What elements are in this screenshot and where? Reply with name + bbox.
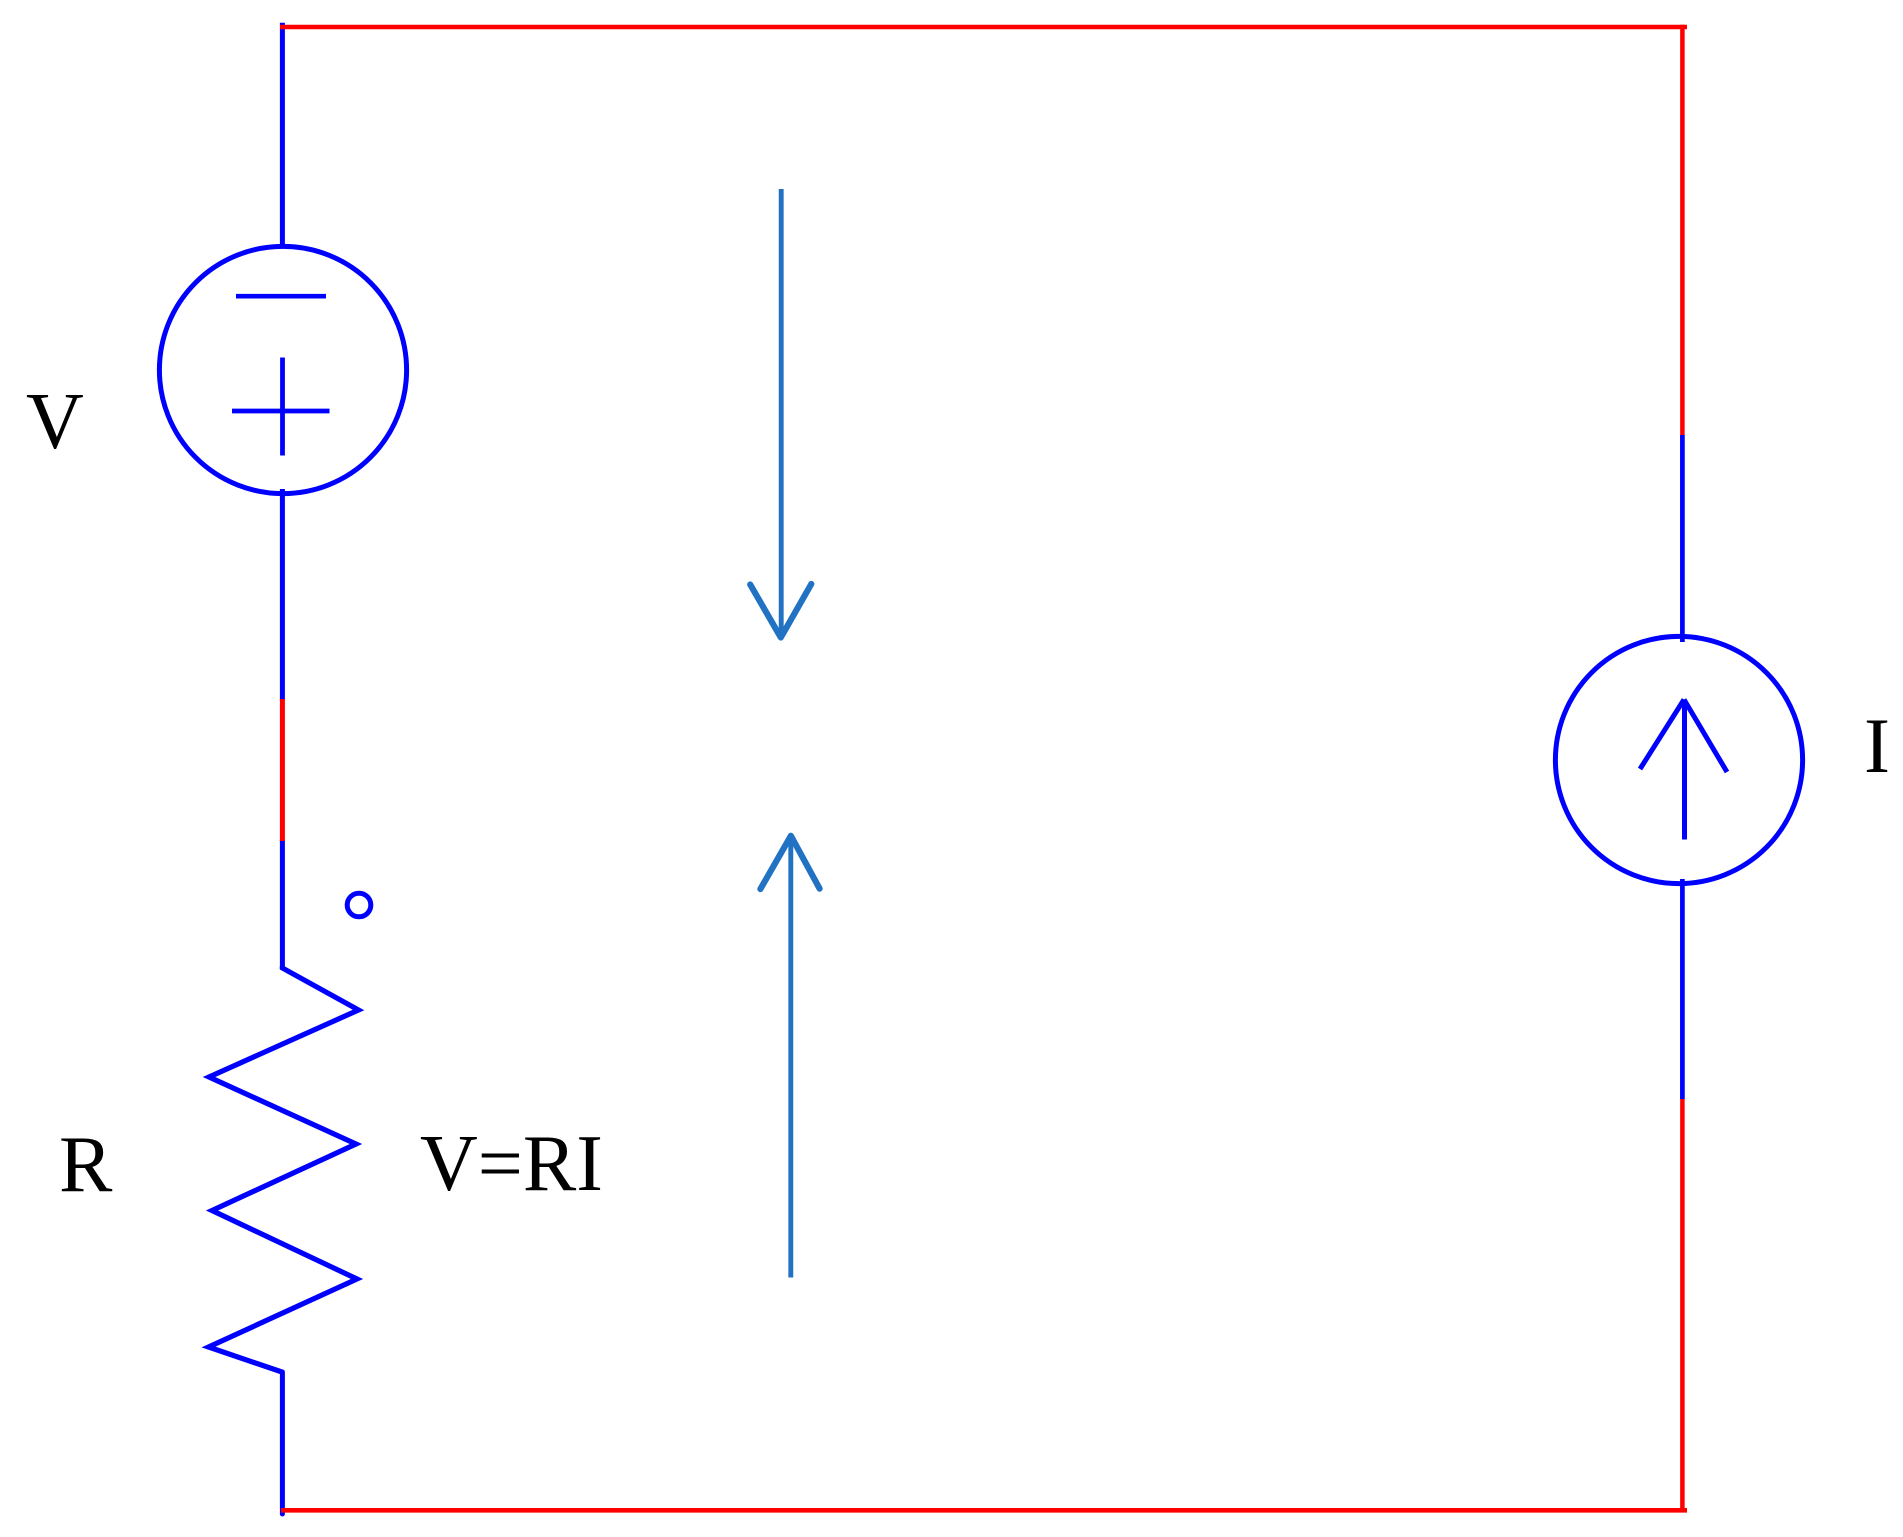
current source I circle	[1555, 636, 1802, 883]
current flow arrow up head	[760, 836, 819, 889]
voltage source plus sign horizontal bar	[232, 409, 330, 414]
svg-text:R: R	[59, 1121, 113, 1209]
wire left vertical below resistor (blue)	[280, 1372, 285, 1514]
svg-text:I: I	[1864, 702, 1890, 789]
voltage source V circle	[159, 246, 406, 493]
current source arrow shaft	[1682, 702, 1687, 840]
wire left vertical below voltage source (blue)	[280, 489, 285, 700]
wire left vertical top into voltage source (blue)	[280, 23, 285, 248]
voltage source plus sign vertical bar	[280, 358, 285, 456]
wire left vertical above resistor (blue)	[280, 840, 285, 969]
wire left vertical red segment	[280, 699, 285, 841]
current flow arrow up shaft	[788, 838, 793, 1278]
node terminal small circle	[347, 893, 371, 917]
current flow arrow down head	[750, 584, 811, 638]
wire bottom horizontal (red, node bottom)	[281, 1508, 1687, 1513]
current flow arrow down shaft	[779, 189, 784, 632]
svg-text:V: V	[26, 378, 84, 466]
wire right vertical into current source top (blue)	[1680, 435, 1685, 642]
current source arrowhead left arm	[1640, 700, 1684, 770]
resistor R zigzag	[209, 966, 359, 1372]
voltage source minus sign	[236, 294, 326, 299]
wire top horizontal (red, node top)	[280, 25, 1687, 30]
wire right vertical lower segment (red)	[1680, 1099, 1685, 1513]
current source arrowhead right arm	[1684, 700, 1727, 773]
wire right vertical upper segment (red)	[1680, 25, 1685, 435]
wire right vertical below current source (blue)	[1680, 879, 1685, 1099]
svg-text:V=RI: V=RI	[420, 1120, 603, 1208]
